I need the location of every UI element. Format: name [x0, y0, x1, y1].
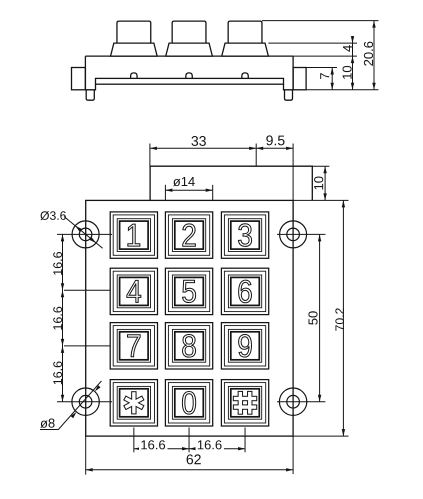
dim text 33: [191, 136, 205, 146]
dim 33 / 9.5 line: [150, 147, 293, 149]
side view dome bump 3: [242, 73, 248, 79]
key 4: [110, 268, 157, 314]
left chain texts 16.6: [53, 252, 62, 275]
bottom chain 16.6 line: [134, 448, 245, 450]
row 2 center extension line: [64, 289, 110, 291]
side view dome bump 1: [131, 73, 137, 79]
side view dome bump 2: [186, 73, 192, 79]
extension line phi14 right: [212, 185, 214, 201]
front view top band: [86, 166, 313, 436]
crosshair hole top-right: [277, 233, 325, 235]
dim text 20.6: [364, 42, 373, 66]
dim text 10: [342, 66, 351, 79]
key 5: [165, 268, 212, 314]
key 8: [165, 323, 212, 369]
mounting hole bottom-left: [72, 388, 99, 415]
bottom chain texts 16.6: [139, 441, 168, 450]
extension line phi14 left: [164, 185, 166, 201]
dim 62 arrows: [86, 468, 93, 471]
side view right flange: [293, 68, 306, 90]
key 7: [110, 323, 157, 369]
dim 50 line: [319, 234, 321, 401]
extension line col1 center: [133, 428, 135, 453]
dim 62 line: [86, 469, 293, 471]
extension line dim33/9.5 shared: [255, 144, 257, 167]
dim text 62: [187, 454, 201, 464]
key star: [110, 380, 157, 426]
square bottom extension: [293, 435, 348, 437]
dim 10 bottom arrow: [351, 83, 354, 90]
button 1 cap: [117, 21, 151, 43]
extension line body top: [293, 55, 357, 57]
dim 50 arrows: [318, 234, 321, 241]
key 3: [221, 212, 268, 258]
dim text 50: [308, 311, 317, 324]
dim text phi14: [173, 177, 195, 186]
crosshair hole top-left: [57, 233, 112, 235]
dimension 4 and 10 line: [352, 36, 354, 90]
square top extension: [293, 199, 348, 201]
button 2 cap: [172, 21, 206, 43]
side view left flange: [72, 68, 86, 90]
bottom chain arrows: [134, 447, 141, 450]
extension line cap bottom: [268, 42, 357, 44]
button 3 stem trapezoid: [222, 43, 269, 56]
dim phi14 arrows: [165, 189, 172, 192]
dim 7 arrows: [331, 68, 334, 75]
mounting hole top-right: [280, 221, 307, 248]
band top extension for dim 10: [312, 165, 329, 167]
dim phi14 line: [165, 189, 212, 191]
dim 9.5 arrows: [256, 147, 263, 150]
button 1 stem trapezoid: [111, 43, 158, 56]
extension line dim62 right: [292, 436, 294, 474]
extension line cap top: [262, 20, 379, 22]
dim 20.6 arrows: [372, 21, 375, 28]
key 9: [221, 323, 268, 369]
row 3 center extension line: [64, 345, 110, 347]
extension line col2 center: [188, 428, 190, 453]
side view body outline: [85, 56, 293, 90]
extension line flange top: [306, 67, 337, 69]
extension line body bottom: [307, 89, 379, 91]
button 2 stem trapezoid: [166, 43, 213, 56]
dim 33 arrows: [150, 147, 157, 150]
extension line dim9.5 right to hole: [292, 144, 294, 221]
crosshair hole bottom-right: [277, 401, 325, 403]
dim 70.2 line: [342, 200, 344, 436]
side view right pin: [285, 90, 293, 100]
dim text 4: [343, 45, 352, 52]
left chain 16.6 line: [62, 234, 64, 401]
extension line dim62 left: [85, 436, 87, 475]
mounting hole top-left: [72, 221, 307, 416]
mounting hole bottom-right: [279, 388, 306, 415]
crosshair hole bottom-left: [57, 401, 112, 403]
dim text 9.5: [266, 135, 284, 145]
dim 70.2 arrows: [342, 200, 345, 207]
side view pcb plate: [96, 78, 284, 84]
label phi3.6: [40, 211, 65, 220]
key hash: [221, 380, 268, 426]
side view left pin: [86, 90, 94, 100]
dim text 10 (front): [314, 176, 323, 189]
key 6: [221, 268, 268, 314]
key 2: [165, 212, 212, 258]
label phi8: [40, 419, 54, 428]
dim text 7: [320, 73, 329, 79]
dimension 20.6 line: [373, 21, 375, 90]
key 0: [165, 380, 212, 426]
keypad keys: [110, 212, 268, 426]
button 3 cap: [228, 21, 262, 43]
front panel square: [86, 200, 293, 436]
phi3.6 leader line: [64, 217, 103, 249]
key 1: [110, 212, 157, 258]
dim 4 arrows: [351, 36, 354, 43]
dimension 7 line: [331, 68, 333, 90]
dim 10 arrows: [323, 166, 326, 173]
extension line col3 center: [244, 428, 246, 453]
phi8 leader line: [40, 381, 102, 430]
dim text 70.2: [335, 308, 344, 331]
left chain arrows: [61, 234, 64, 241]
dim 10 vertical line: [324, 166, 326, 200]
extension line dim33 left: [149, 144, 151, 167]
